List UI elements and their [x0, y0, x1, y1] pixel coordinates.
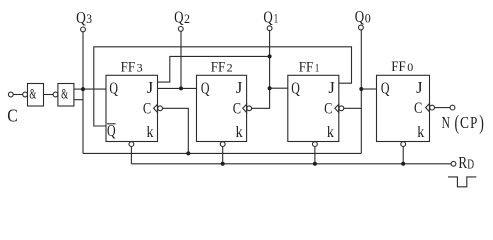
svg-text:3: 3	[137, 63, 143, 75]
svg-text:R: R	[458, 153, 467, 172]
FF3 Qbar overline	[107, 123, 116, 125]
wire FF1 reset drop	[314, 147, 316, 164]
svg-text:&: &	[61, 87, 68, 103]
svg-text:C: C	[460, 113, 469, 132]
svg-text:0: 0	[365, 10, 371, 25]
terminal Q0	[359, 25, 364, 30]
NAND gate G1 input bubble	[23, 92, 28, 97]
svg-text:0: 0	[407, 62, 413, 74]
svg-text:J: J	[416, 78, 423, 97]
wire FF3 J to FF2 Q	[158, 87, 197, 89]
FF3 C input bubble	[158, 106, 163, 111]
terminal C	[8, 92, 13, 97]
junction Q1 tap	[268, 86, 272, 90]
wire Q3 vertical	[82, 32, 84, 154]
wire G1 to G2	[44, 94, 54, 96]
NAND gate G1	[28, 84, 44, 107]
wire FF0 C to N(CP) terminal	[435, 107, 451, 109]
FF3 clock wedge	[154, 104, 158, 112]
wire clock rail R1	[83, 152, 361, 154]
NAND gate G2	[58, 84, 74, 107]
svg-text:Q: Q	[76, 8, 86, 27]
terminal RD	[451, 161, 456, 166]
svg-text:C: C	[324, 101, 332, 118]
svg-text:1: 1	[274, 11, 279, 26]
wire FF3 reset drop	[130, 147, 132, 164]
FF2 C input bubble	[247, 106, 252, 111]
FF0 C input bubble	[430, 105, 435, 110]
terminal Q3	[81, 27, 86, 32]
svg-text:): )	[479, 111, 484, 135]
svg-text:Q: Q	[109, 79, 118, 98]
wire G2 lower stub	[74, 99, 83, 101]
wire reset rail R2	[131, 163, 451, 165]
svg-text:k: k	[327, 124, 334, 141]
FF2 reset bubble	[220, 142, 225, 147]
flip-flop FF2	[197, 75, 247, 141]
svg-text:Q: Q	[263, 7, 272, 26]
svg-text:Q: Q	[107, 121, 116, 140]
svg-text:2: 2	[227, 62, 233, 74]
svg-text:Q: Q	[381, 79, 390, 98]
wire C to G1	[13, 94, 23, 96]
svg-text:Q: Q	[174, 8, 183, 27]
wire Q1 vertical to FF2 C	[252, 31, 270, 109]
wire G2 upper stub	[74, 88, 83, 90]
wire FF1 C stub	[344, 107, 362, 109]
NAND gate G2 input bubble	[53, 92, 58, 97]
FF1 clock wedge	[335, 104, 339, 112]
svg-text:J: J	[328, 78, 335, 97]
terminal Q1	[267, 26, 272, 31]
svg-text:C: C	[233, 101, 241, 118]
svg-text:1: 1	[315, 62, 320, 74]
svg-text:2: 2	[184, 11, 190, 26]
wire Q0 to FF0 Q	[361, 88, 376, 90]
svg-text:&: &	[29, 87, 36, 103]
wire Q2 vertical	[180, 31, 182, 88]
pulse waveform symbol	[448, 177, 476, 187]
junction Q0 tap	[359, 87, 363, 91]
wire FF2 reset drop	[222, 147, 224, 164]
junction at G2 output	[81, 87, 85, 91]
wire FF0 reset drop	[402, 147, 404, 164]
svg-text:C: C	[143, 101, 151, 118]
svg-text:k: k	[147, 124, 154, 141]
wire to FF3 Q	[83, 88, 106, 90]
junction FF0 reset	[401, 162, 405, 166]
wire Q1 to FF1 Q	[270, 87, 288, 89]
FF0 reset bubble	[401, 142, 406, 147]
flip-flop FF1	[288, 75, 339, 141]
svg-text:FF: FF	[299, 59, 314, 75]
junction Q2 tap	[179, 86, 183, 90]
wire FF3 C to clock rail	[163, 108, 189, 153]
svg-text:Q: Q	[355, 7, 364, 26]
svg-text:FF: FF	[211, 59, 226, 75]
FF2 clock wedge	[243, 104, 247, 112]
svg-text:Q: Q	[291, 79, 300, 98]
FF0 clock wedge	[426, 104, 430, 112]
svg-text:D: D	[467, 157, 474, 172]
svg-text:k: k	[417, 124, 424, 141]
FF1 C input bubble	[339, 106, 344, 111]
junction FF1 reset	[313, 162, 317, 166]
terminal N(CP)	[450, 105, 455, 110]
junction FF2 reset	[221, 162, 225, 166]
wire Qbar3 feedback rail1 to FF1 J	[94, 47, 352, 126]
svg-text:P: P	[470, 113, 477, 132]
FF3 reset bubble	[129, 142, 134, 147]
terminal Q2	[178, 27, 183, 32]
junction FF3 C on clock rail	[186, 151, 190, 155]
svg-text:N: N	[442, 113, 450, 132]
svg-text:C: C	[414, 100, 422, 117]
junction Q1 rail2	[268, 54, 272, 58]
svg-text:J: J	[147, 78, 154, 97]
wire Q0 vertical to clock rail	[360, 30, 362, 153]
svg-text:J: J	[236, 78, 243, 97]
svg-text:3: 3	[86, 11, 92, 26]
flip-flop FF0	[377, 75, 430, 141]
svg-text:C: C	[7, 106, 17, 126]
flip-flop FF3	[106, 75, 158, 141]
svg-text:Q: Q	[201, 79, 210, 98]
svg-text:(: (	[455, 111, 460, 135]
svg-text:FF: FF	[121, 60, 136, 76]
svg-text:FF: FF	[391, 59, 406, 75]
wire rail2 FF3 J to Q1	[158, 56, 270, 82]
svg-text:k: k	[236, 124, 243, 141]
FF1 reset bubble	[313, 142, 318, 147]
